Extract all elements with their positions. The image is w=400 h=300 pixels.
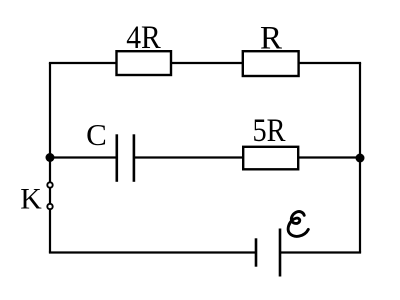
wire top left segment [49, 62, 117, 64]
node left junction [46, 153, 55, 162]
svg-text:R: R [260, 21, 282, 57]
wire top right segment [298, 62, 361, 64]
wire top middle segment [170, 62, 244, 64]
wire middle left segment [50, 156, 117, 158]
svg-text:5R: 5R [253, 113, 286, 149]
resistor R [243, 21, 299, 77]
wire bottom right segment [280, 251, 361, 253]
svg-text:K: K [20, 183, 42, 216]
EMF script-E label [288, 212, 308, 237]
wire right vertical [359, 63, 361, 253]
wire middle center segment [134, 156, 244, 158]
svg-text:C: C [86, 117, 107, 152]
switch K [20, 182, 52, 215]
wire bottom left segment [49, 251, 256, 253]
resistor 5R [243, 113, 298, 169]
node right junction [356, 154, 365, 163]
resistor 4R [117, 20, 172, 75]
wire middle right segment [298, 156, 361, 158]
capacitor C [86, 117, 134, 182]
battery E (EMF source) [256, 229, 280, 277]
svg-text:4R: 4R [126, 20, 161, 56]
wire left vertical [49, 63, 51, 253]
